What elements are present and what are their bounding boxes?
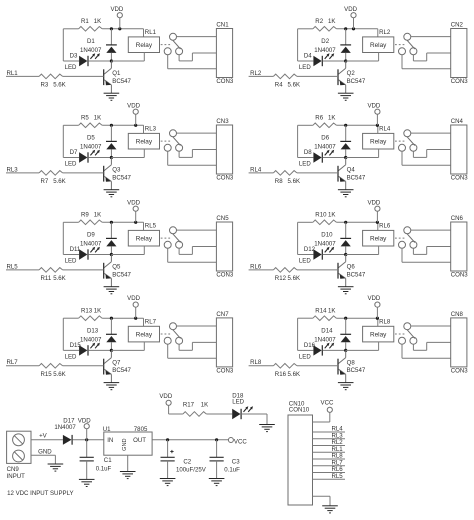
wire: NC contact to CN3 pin 3 [168, 151, 217, 165]
relay coil RL2 [346, 37, 394, 61]
svg-text:0.1uF: 0.1uF [224, 467, 240, 474]
connector CN5 CON3 [216, 215, 234, 279]
relay RL6 common contact [404, 227, 411, 234]
svg-text:R1: R1 [81, 18, 89, 25]
label Q3 BC547 [112, 167, 131, 182]
relay RL3 mechanical link [161, 140, 172, 142]
relay RL2 mechanical link [395, 44, 406, 46]
svg-text:Relay: Relay [370, 236, 387, 243]
svg-text:C1: C1 [104, 457, 112, 464]
svg-text:R9: R9 [81, 212, 89, 219]
label D9 1N4007 [80, 232, 102, 248]
resistor R5 [79, 123, 103, 128]
junction node C2 [166, 438, 169, 441]
svg-text:VCC: VCC [234, 439, 247, 446]
svg-text:RL8: RL8 [250, 359, 262, 366]
svg-text:R2: R2 [315, 18, 323, 25]
connector CN4 CON3 [451, 118, 469, 182]
svg-text:Relay: Relay [136, 139, 153, 146]
svg-text:D2: D2 [321, 38, 329, 45]
svg-text:BC547: BC547 [112, 271, 131, 278]
svg-text:5.6K: 5.6K [53, 82, 66, 89]
svg-text:1K: 1K [94, 115, 101, 122]
relay RL8 common contact [404, 323, 411, 330]
junction node VDD rail / D10 cathode [344, 221, 347, 224]
svg-text:Q4: Q4 [347, 167, 356, 174]
svg-text:Q1: Q1 [112, 70, 121, 77]
wire: input RL2 lead [249, 75, 274, 77]
svg-text:5.6K: 5.6K [288, 82, 301, 89]
svg-text:VDD: VDD [110, 6, 123, 13]
svg-text:LED: LED [299, 257, 311, 264]
svg-text:1K: 1K [328, 307, 335, 314]
svg-text:BC547: BC547 [347, 174, 366, 181]
svg-text:CN2: CN2 [451, 22, 464, 29]
svg-text:+V: +V [39, 432, 48, 439]
svg-text:RL6: RL6 [250, 263, 262, 270]
ground (CN10) [322, 506, 338, 513]
diode D2 1N4007 (flyback) [340, 29, 351, 61]
svg-text:100uF/25V: 100uF/25V [176, 467, 207, 474]
relay RL1 NC contact [164, 48, 171, 55]
svg-text:1N4007: 1N4007 [314, 47, 336, 54]
VDD power terminal (LED branch) [159, 393, 172, 414]
diode D5 1N4007 (flyback) [106, 125, 117, 157]
ground (C1) [79, 479, 95, 486]
relay coil RL4 [346, 133, 394, 157]
junction node collector of Q2 [344, 59, 347, 62]
wire: CN10 pin net RL8 [313, 453, 346, 460]
transistor Q7 BC547 [104, 350, 112, 382]
svg-text:CN7: CN7 [216, 311, 229, 318]
relay RL6 armature [407, 234, 415, 243]
svg-text:1K: 1K [94, 307, 101, 314]
wire: NO contact to CN3 pin 2 [179, 150, 216, 158]
wire: D18 cathode to ground [241, 414, 267, 425]
transistor Q1 BC547 [104, 61, 112, 93]
label R17 1K [183, 401, 208, 408]
svg-text:D16: D16 [304, 342, 316, 349]
junction node collector of Q5 [110, 253, 113, 256]
wire: VDD rail of channel 8 [298, 318, 378, 350]
label D12 LED [299, 246, 316, 264]
VDD power terminal [367, 295, 380, 318]
svg-text:R13: R13 [81, 307, 93, 314]
ground (emitter of Q6) [338, 287, 354, 294]
label R12 5.6K [275, 275, 300, 282]
relay coil RL1 [111, 37, 159, 61]
ground (emitter of Q8) [338, 383, 354, 390]
svg-text:BC547: BC547 [347, 271, 366, 278]
ground (emitter of Q7) [104, 383, 120, 390]
transistor Q6 BC547 [338, 255, 346, 287]
svg-text:1K: 1K [201, 401, 208, 408]
svg-text:CN5: CN5 [216, 215, 229, 222]
svg-text:RL7: RL7 [7, 359, 19, 366]
relay RL4 NC contact [399, 144, 406, 151]
svg-text:1K: 1K [328, 212, 335, 219]
svg-text:5.6K: 5.6K [288, 178, 301, 185]
resistor R13 [79, 316, 103, 321]
relay RL3 common contact [170, 130, 177, 137]
resistor R6 [313, 123, 337, 128]
junction node VDD rail / D5 cathode [110, 124, 113, 127]
relay coil RL6 [346, 230, 394, 254]
svg-text:C3: C3 [232, 458, 240, 465]
wire: input RL7 lead [6, 365, 39, 367]
connector CN2 CON3 [451, 22, 469, 86]
svg-text:RL2: RL2 [379, 29, 391, 36]
svg-text:BC547: BC547 [347, 78, 366, 85]
relay RL7 NO contact [176, 337, 183, 344]
capacitor C3 0.1uF [210, 440, 224, 479]
label R1 1K [81, 18, 101, 25]
relay RL3 NO contact [176, 144, 183, 151]
svg-text:D10: D10 [321, 232, 333, 239]
junction node VDD tap [376, 317, 379, 320]
wire: VDD rail of channel 7 [63, 318, 143, 350]
wire: base of Q3 [63, 172, 104, 174]
svg-text:Relay: Relay [370, 139, 387, 146]
LED D8 [298, 150, 346, 163]
wire: NO contact to CN6 pin 2 [413, 247, 450, 255]
ground (CN9 GND) [48, 464, 64, 471]
label Q7 BC547 [112, 360, 131, 375]
svg-text:LED: LED [299, 160, 311, 167]
VDD power terminal [344, 6, 357, 29]
junction node VDD tap [134, 124, 137, 127]
wire: CN9 GND return [31, 455, 55, 464]
svg-text:D4: D4 [304, 53, 312, 60]
junction node collector of Q4 [344, 156, 347, 159]
svg-text:Q5: Q5 [112, 264, 121, 271]
svg-text:VDD: VDD [367, 199, 380, 206]
junction node VDD rail / D6 cathode [344, 124, 347, 127]
relay RL5 armature [173, 234, 181, 243]
VCC power terminal (CN10) [313, 400, 334, 423]
diode D6 1N4007 (flyback) [340, 125, 351, 157]
wire: NC contact to CN6 pin 3 [402, 248, 451, 262]
junction node collector of Q3 [110, 156, 113, 159]
svg-text:0.1uF: 0.1uF [96, 465, 112, 472]
junction node VDD tap [352, 27, 355, 30]
relay RL1 armature [173, 40, 181, 49]
relay coil RL5 [111, 230, 159, 254]
svg-text:Relay: Relay [136, 42, 153, 49]
wire: NC contact to CN4 pin 3 [402, 151, 451, 165]
svg-text:RL5: RL5 [7, 263, 19, 270]
label R15 5.6K [41, 371, 66, 378]
LED D15 [63, 343, 111, 356]
wire: CN10 pin net RL1 [313, 446, 346, 453]
ground (D18) [259, 425, 275, 432]
relay RL8 NO contact [410, 337, 417, 344]
relay RL3 armature [173, 137, 181, 146]
label D18 LED [232, 392, 244, 405]
junction node VDD rail / D1 cathode [110, 27, 113, 30]
wire: NC contact to CN7 pin 3 [168, 344, 217, 358]
svg-text:Q7: Q7 [112, 360, 121, 367]
regulator U1 7805 [104, 432, 152, 455]
svg-text:CN8: CN8 [451, 311, 464, 318]
capacitor C2 100uF/25V (electrolytic) [161, 440, 175, 479]
wire: CN10 pin net RL6 [313, 466, 346, 473]
svg-text:CON3: CON3 [216, 272, 234, 279]
relay RL4 common contact [404, 130, 411, 137]
transistor Q8 BC547 [338, 350, 346, 382]
label Q2 BC547 [347, 70, 366, 85]
svg-text:IN: IN [107, 437, 113, 444]
relay RL1 mechanical link [161, 44, 172, 46]
svg-text:5.6K: 5.6K [288, 371, 301, 378]
wire: NO contact to CN2 pin 2 [413, 53, 450, 61]
wire: NC contact to CN8 pin 3 [402, 344, 451, 358]
connector CN10 CON10 [288, 401, 313, 506]
junction node VDD rail / D2 cathode [344, 27, 347, 30]
svg-text:1N4007: 1N4007 [80, 144, 102, 151]
relay RL6 NC contact [399, 241, 406, 248]
resistor R15 [39, 364, 63, 369]
junction node collector of Q8 [344, 349, 347, 352]
svg-text:1N4007: 1N4007 [80, 336, 102, 343]
relay RL5 common contact [170, 227, 177, 234]
resistor R11 [39, 268, 63, 273]
svg-text:VDD: VDD [127, 295, 140, 302]
svg-text:R5: R5 [81, 115, 89, 122]
ground (emitter of Q4) [338, 190, 354, 197]
svg-text:LED: LED [65, 353, 77, 360]
ground (U1 GND) [120, 472, 136, 479]
relay RL5 mechanical link [161, 237, 172, 239]
label R8 5.6K [275, 178, 300, 185]
wire: base of Q1 [63, 75, 104, 77]
capacitor C1 0.1uF [80, 440, 94, 480]
ground (C2) [160, 479, 176, 486]
label D10 1N4007 [314, 232, 336, 248]
VDD power terminal [127, 199, 140, 222]
svg-text:U1: U1 [103, 426, 111, 433]
svg-text:R16: R16 [275, 371, 287, 378]
label R3 5.6K [41, 82, 66, 89]
wire: VDD rail of channel 6 [298, 222, 378, 254]
svg-text:VDD: VDD [367, 295, 380, 302]
svg-text:1N4007: 1N4007 [314, 144, 336, 151]
svg-text:LED: LED [299, 353, 311, 360]
wire: VDD rail of channel 5 [63, 222, 143, 254]
relay RL4 armature [407, 137, 415, 146]
svg-text:R4: R4 [275, 82, 283, 89]
resistor R8 [273, 171, 297, 176]
resistor R7 [39, 171, 63, 176]
svg-text:D15: D15 [70, 342, 82, 349]
resistor R16 [273, 364, 297, 369]
svg-text:Relay: Relay [370, 331, 387, 338]
relay RL2 NO contact [410, 48, 417, 55]
wire: CN10 ground pin [313, 496, 331, 506]
wire: R17 to D18 [206, 413, 232, 415]
svg-text:R6: R6 [315, 115, 323, 122]
svg-text:1N4007: 1N4007 [54, 424, 76, 431]
svg-text:1K: 1K [94, 212, 101, 219]
svg-text:VDD: VDD [127, 199, 140, 206]
label D2 1N4007 [314, 38, 336, 54]
svg-text:D5: D5 [87, 135, 95, 142]
diode D17 1N4007 [63, 435, 72, 445]
relay coil RL7 [111, 326, 159, 350]
VDD power terminal [127, 295, 140, 318]
relay RL8 NC contact [399, 337, 406, 344]
resistor R10 [313, 220, 337, 225]
svg-text:CN3: CN3 [216, 118, 229, 125]
svg-text:R12: R12 [275, 275, 287, 282]
svg-text:7805: 7805 [134, 426, 148, 433]
svg-text:RL4: RL4 [379, 125, 391, 132]
label D15 LED [65, 342, 82, 360]
label R11 5.6K [41, 275, 66, 282]
connector CN6 CON3 [451, 215, 469, 279]
wire: common contact to CN5 pin 1 [177, 229, 217, 231]
junction node VDD [85, 438, 88, 441]
svg-text:BC547: BC547 [112, 367, 131, 374]
svg-text:D11: D11 [70, 246, 81, 253]
transistor Q3 BC547 [104, 158, 112, 190]
svg-text:CON3: CON3 [451, 368, 469, 375]
label D4 LED [299, 53, 312, 71]
junction node VDD tap [118, 27, 121, 30]
wire: input RL6 lead [249, 269, 274, 271]
VDD power terminal [127, 102, 140, 125]
junction node VDD rail / D13 cathode [110, 317, 113, 320]
wire: NO contact to CN1 pin 2 [179, 53, 216, 61]
relay RL1 NO contact [176, 48, 183, 55]
label R13 1K [81, 307, 101, 314]
svg-text:1N4007: 1N4007 [314, 241, 336, 248]
svg-text:RL3: RL3 [7, 166, 19, 173]
junction node collector of Q1 [110, 59, 113, 62]
svg-text:RL6: RL6 [379, 222, 391, 229]
svg-text:LED: LED [65, 257, 77, 264]
svg-text:12 VDC INPUT SUPPLY: 12 VDC INPUT SUPPLY [7, 490, 74, 497]
label R7 5.6K [41, 178, 66, 185]
wire: common contact to CN4 pin 1 [411, 132, 451, 134]
svg-text:R14: R14 [315, 307, 327, 314]
label D17 1N4007 [54, 417, 76, 431]
wire: +V from CN9 to D17 anode [31, 439, 63, 441]
junction node VDD tap [134, 317, 137, 320]
diode D1 1N4007 (flyback) [106, 29, 117, 61]
label D6 1N4007 [314, 135, 336, 151]
label C2 100uF/25V [176, 458, 207, 473]
svg-text:BC547: BC547 [112, 78, 131, 85]
svg-text:CON3: CON3 [451, 175, 469, 182]
wire: CN10 pin net RL2 [313, 439, 346, 446]
label R10 1K [315, 212, 335, 219]
svg-text:VCC: VCC [321, 400, 334, 407]
svg-text:VDD: VDD [367, 102, 380, 109]
label Q8 BC547 [347, 360, 366, 375]
connector CN3 CON3 [216, 118, 234, 182]
svg-text:CON3: CON3 [451, 78, 469, 85]
svg-text:RL1: RL1 [145, 29, 157, 36]
svg-text:LED: LED [232, 399, 244, 406]
label D13 1N4007 [80, 327, 102, 343]
VDD power terminal [367, 199, 380, 222]
svg-text:1K: 1K [328, 18, 335, 25]
svg-text:CN9: CN9 [7, 466, 20, 473]
wire: common contact to CN8 pin 1 [411, 325, 451, 327]
relay RL2 NC contact [399, 48, 406, 55]
svg-text:LED: LED [65, 160, 77, 167]
relay RL5 NC contact [164, 241, 171, 248]
svg-text:5.6K: 5.6K [288, 275, 301, 282]
resistor R3 [39, 74, 63, 79]
label R9 1K [81, 212, 101, 219]
svg-text:5.6K: 5.6K [53, 275, 66, 282]
VCC power terminal [228, 438, 247, 446]
svg-text:Q3: Q3 [112, 167, 121, 174]
wire: CN10 pin net RL3 [313, 432, 346, 439]
svg-text:D12: D12 [304, 246, 316, 253]
svg-text:D3: D3 [70, 53, 78, 60]
wire: CN10 pin net RL4 [313, 426, 346, 433]
svg-text:R15: R15 [41, 371, 53, 378]
relay RL3 NC contact [164, 144, 171, 151]
label U1 7805 [103, 426, 148, 433]
transistor Q5 BC547 [104, 255, 112, 287]
svg-text:INPUT: INPUT [7, 473, 26, 480]
junction node collector of Q7 [110, 349, 113, 352]
diode D10 1N4007 (flyback) [340, 222, 351, 254]
svg-text:R10: R10 [315, 212, 327, 219]
wire: NO contact to CN5 pin 2 [179, 247, 216, 255]
svg-text:5.6K: 5.6K [53, 371, 66, 378]
VDD power terminal [110, 6, 123, 29]
resistor R12 [273, 268, 297, 273]
label C3 0.1uF [224, 458, 240, 473]
label R4 5.6K [275, 82, 300, 89]
label D14 1N4007 [314, 327, 336, 343]
wire: base of Q2 [297, 75, 338, 77]
wire: base of Q6 [297, 269, 338, 271]
svg-text:1N4007: 1N4007 [80, 47, 102, 54]
svg-text:RL7: RL7 [145, 318, 157, 325]
wire: common contact to CN6 pin 1 [411, 229, 451, 231]
svg-text:VDD: VDD [159, 393, 172, 400]
resistor R17 [183, 412, 207, 417]
LED D4 [298, 53, 346, 66]
relay RL7 NC contact [164, 337, 171, 344]
connector CN9 screw terminal (power input) [7, 431, 31, 480]
svg-text:Relay: Relay [136, 236, 153, 243]
transistor Q2 BC547 [338, 61, 346, 93]
relay RL6 NO contact [410, 241, 417, 248]
svg-text:Q6: Q6 [347, 264, 356, 271]
wire: VDD rail of channel 3 [63, 125, 143, 157]
relay RL2 armature [407, 40, 415, 49]
svg-text:RL4: RL4 [250, 166, 262, 173]
label D7 LED [65, 149, 78, 167]
wire: D17 cathode to U1 IN [72, 439, 104, 441]
junction node VDD tap [134, 221, 137, 224]
LED D7 [63, 150, 111, 163]
relay RL7 mechanical link [161, 333, 172, 335]
wire: VDD rail of channel 4 [298, 125, 378, 157]
wire: input RL4 lead [249, 172, 274, 174]
svg-text:R8: R8 [275, 178, 283, 185]
VDD power terminal (raw supply) [78, 417, 91, 440]
resistor R14 [313, 316, 337, 321]
wire: NO contact to CN8 pin 2 [413, 342, 450, 350]
